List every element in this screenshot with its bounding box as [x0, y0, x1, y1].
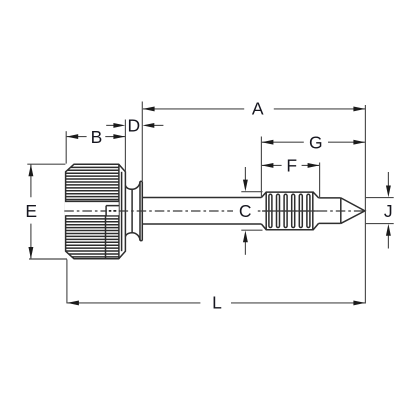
C top arrow — [244, 167, 246, 181]
F dimension line — [262, 164, 320, 166]
F/G left extension line — [260, 137, 262, 197]
F right extension line — [319, 163, 321, 199]
neck cove top profile — [125, 181, 140, 189]
thread end lines — [312, 192, 314, 230]
dimension E — [25, 164, 67, 259]
cone tip — [341, 198, 365, 224]
thread crest/root slots — [269, 194, 310, 227]
neck cove bottom profile — [125, 233, 140, 241]
svg-text:J: J — [384, 201, 393, 221]
dimension F — [261, 137, 319, 199]
slot-bottom box centerline dots — [109, 210, 117, 212]
head chamfer boundary line — [118, 164, 120, 259]
shank bottom edge — [142, 223, 261, 225]
L left arrow — [67, 300, 79, 305]
svg-text:C: C — [239, 201, 252, 221]
B left extension line — [65, 131, 67, 163]
D right extension line — [141, 102, 143, 182]
svg-text:G: G — [309, 132, 323, 152]
svg-text:L: L — [212, 292, 222, 312]
slot top edge — [66, 200, 120, 202]
slot-bottom box white interior — [107, 206, 119, 215]
L dimension line — [67, 302, 365, 304]
L left extension line — [66, 259, 68, 303]
D right outside arrow — [154, 124, 164, 126]
B dimension line — [66, 136, 125, 138]
dog point top edge — [319, 197, 341, 199]
shank top edge — [142, 197, 261, 199]
J bottom extension line — [365, 223, 393, 225]
B right arrow — [113, 134, 125, 139]
svg-text:A: A — [252, 98, 264, 118]
svg-text:E: E — [25, 201, 37, 221]
G right arrow — [353, 140, 365, 145]
A extension line (right, at tip) — [364, 105, 366, 304]
C thread OD extension line top — [241, 191, 262, 193]
svg-text:F: F — [286, 156, 297, 176]
B left arrow — [66, 134, 78, 139]
J top extension line — [365, 197, 393, 199]
J bottom arrow — [387, 235, 389, 249]
dimension C — [233, 167, 263, 255]
G dimension line — [262, 141, 366, 143]
knurling (straight knurl lines, lower half) — [66, 219, 119, 257]
G left arrow — [262, 140, 274, 145]
D left outside arrow — [106, 124, 114, 126]
E bottom arrow — [28, 247, 33, 259]
slot-bottom box outline — [106, 206, 119, 216]
dimension D — [106, 102, 163, 182]
thread outline (chamfered) — [261, 192, 318, 230]
head face inner edge line — [121, 172, 123, 251]
J top arrow — [387, 172, 389, 187]
neck waist line — [131, 189, 133, 232]
svg-text:B: B — [91, 127, 103, 147]
L right arrow — [353, 300, 365, 305]
centerline (dash-dot axis) — [64, 210, 365, 212]
dimension B — [66, 120, 125, 172]
dog point bottom edge — [319, 222, 341, 224]
collar (washer flange) — [140, 181, 142, 240]
C thread OD extension line bottom — [241, 229, 262, 231]
dimension J — [365, 172, 393, 249]
E dimension line — [30, 164, 32, 258]
dimension A — [143, 98, 366, 303]
C bottom arrow — [244, 241, 246, 255]
svg-text:D: D — [127, 116, 140, 136]
E top extension line — [27, 163, 65, 165]
centerline solid segment through thread — [262, 210, 318, 212]
E top arrow — [28, 164, 33, 176]
E bottom extension line — [29, 258, 67, 260]
A dimension line — [143, 108, 365, 110]
thread start line — [265, 192, 267, 230]
knurled head outline — [66, 164, 126, 259]
dimension L — [67, 259, 365, 312]
F right arrow — [308, 163, 320, 168]
knurling (straight knurl lines, upper half) — [66, 167, 119, 199]
A right arrow — [353, 106, 365, 111]
cone base line — [340, 198, 342, 224]
screwdriver slot (white channel) — [65, 202, 119, 215]
C label background — [233, 203, 256, 220]
B/D shared extension line — [124, 120, 126, 172]
slot bottom edge — [66, 215, 120, 217]
A left arrow — [143, 106, 155, 111]
F left arrow — [262, 163, 274, 168]
lower-half slot edge line — [105, 216, 107, 258]
dimension G — [262, 132, 366, 152]
